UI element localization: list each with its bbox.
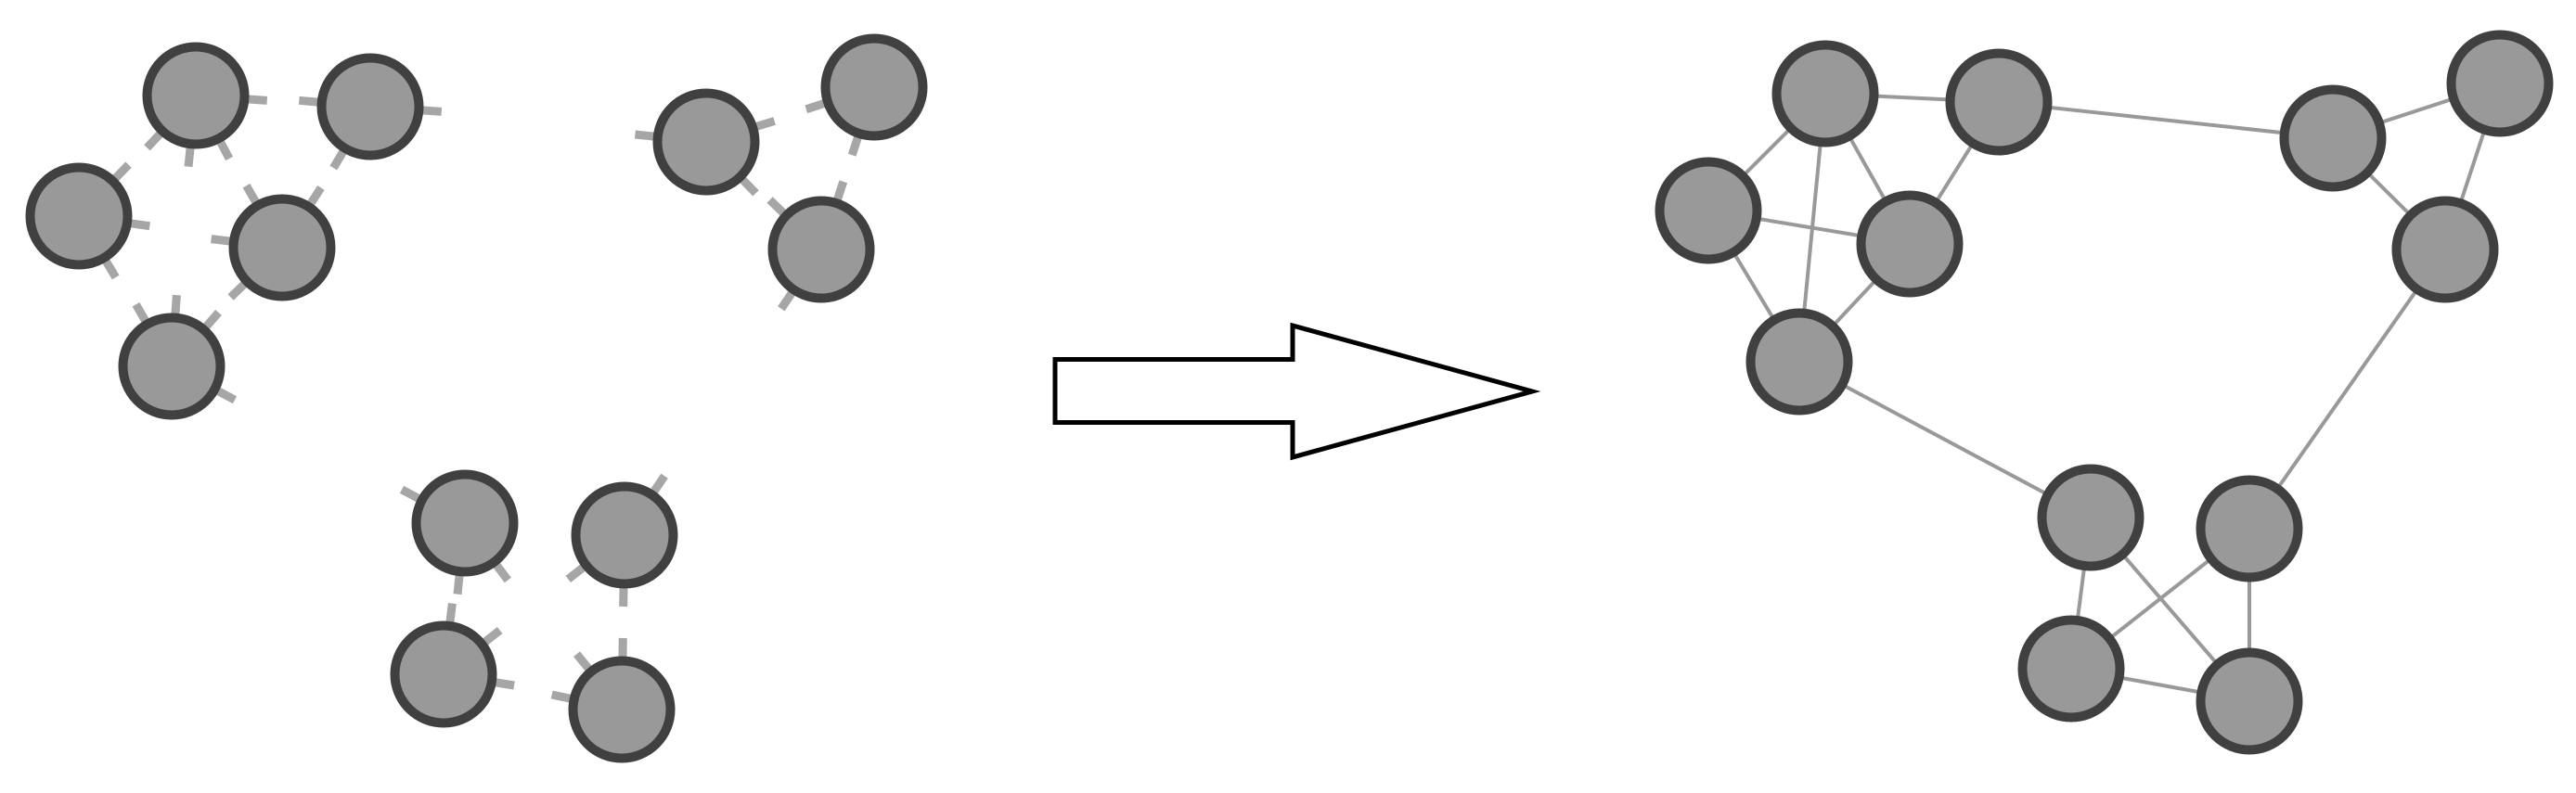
wire edge R2-R6 [1999, 102, 2333, 138]
wire edge R1-R5 [1799, 94, 1825, 362]
node R2 [1951, 54, 2048, 151]
wire edge R7-R8 [2445, 83, 2500, 249]
wire edge R6-R8 [2333, 138, 2445, 249]
node R12 [2201, 653, 2299, 750]
node L12 with stubs [552, 638, 671, 759]
node L4 with stubs [212, 185, 331, 297]
wire edge R1-R2 [1825, 94, 1999, 102]
node L9 with stubs [402, 475, 514, 595]
wire edge R10-R12 [2248, 529, 2251, 701]
wire edge R9-R12 [2091, 518, 2249, 701]
wire edge R1-R3 [1708, 94, 1825, 211]
node L7 with stubs [806, 39, 923, 156]
node L10 with stubs [568, 476, 673, 607]
node R7 [2452, 35, 2549, 133]
wire edge R1-R4 [1825, 94, 1910, 244]
wire edge R5-R9 [1799, 362, 2091, 518]
node L5 with stubs [123, 295, 236, 415]
wire edge R2-R4 [1910, 102, 1999, 244]
wire edge R9-R11 [2071, 518, 2091, 669]
node L6 with stubs [635, 94, 774, 194]
node R4 [1861, 196, 1959, 293]
node L1 with stubs [148, 47, 267, 167]
node R5 [1751, 313, 1848, 411]
node L2 with stubs [299, 58, 442, 169]
wire edge R10-R11 [2071, 529, 2249, 669]
node R1 [1777, 45, 1874, 143]
node L11 with stubs [395, 604, 515, 723]
node L8 with stubs [770, 182, 870, 309]
wire edge R8-R10 [2249, 249, 2445, 529]
node L3 with stubs [31, 165, 150, 277]
wire edge R4-R5 [1799, 244, 1910, 362]
arrow (left figure maps to right network) [1055, 326, 1532, 457]
node R3 [1660, 162, 1758, 260]
node R8 [2397, 201, 2494, 299]
node R6 [2285, 90, 2382, 187]
node R11 [2023, 620, 2120, 718]
node R9 [2042, 469, 2140, 567]
wire edge R11-R12 [2071, 669, 2249, 701]
wire edge R3-R5 [1708, 211, 1799, 362]
wire edge R3-R4 [1708, 211, 1910, 244]
wire edge R6-R7 [2333, 83, 2500, 138]
node R10 [2201, 480, 2299, 578]
